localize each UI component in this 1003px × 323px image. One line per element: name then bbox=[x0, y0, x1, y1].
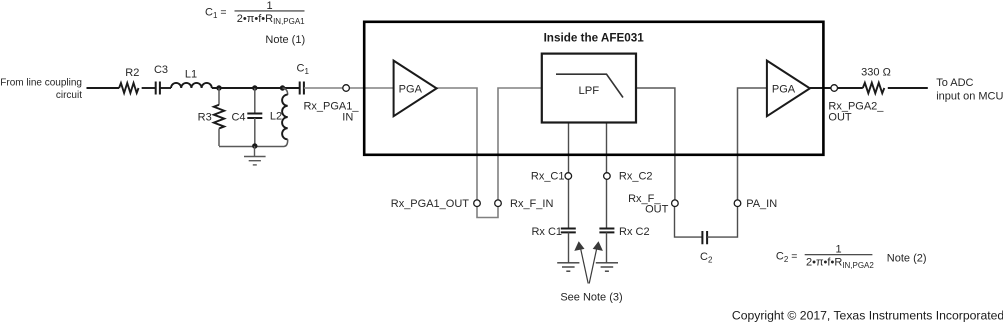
svg-text:330 Ω: 330 Ω bbox=[861, 67, 891, 79]
node dot: R3 junction bbox=[216, 85, 221, 90]
wire: LPF bottom pin 2 down bbox=[606, 123, 608, 173]
terminal: Rx_PGA2_OUT bbox=[828, 85, 884, 124]
wire: jumper Rx_PGA1_OUT to Rx_F_IN bbox=[477, 207, 498, 218]
resistor 330 ohm bbox=[861, 67, 891, 94]
svg-text:Rx_PGA1_OUT: Rx_PGA1_OUT bbox=[391, 198, 470, 210]
wire: R2 to C3 bbox=[142, 87, 156, 89]
node dot: C4 junction bbox=[252, 85, 257, 90]
box: Inside the AFE031 bbox=[364, 22, 823, 155]
op-amp PGA1 bbox=[394, 61, 437, 117]
svg-text:R2: R2 bbox=[125, 67, 139, 79]
terminal: Rx_PGA1_OUT bbox=[391, 198, 481, 210]
svg-text:R3: R3 bbox=[198, 111, 212, 123]
svg-text:2•π•f•RIN,PGA2: 2•π•f•RIN,PGA2 bbox=[806, 257, 874, 270]
wire: PGA1 output down to Rx_PGA1_OUT bbox=[437, 88, 477, 200]
arrow: note 3 right bbox=[589, 241, 603, 283]
wire: Rx C1 cap to ground bbox=[568, 232, 570, 262]
svg-text:circuit: circuit bbox=[56, 90, 82, 101]
svg-text:PGA: PGA bbox=[772, 83, 796, 95]
resistor R2 bbox=[119, 83, 138, 93]
wire: tank bottom rail bbox=[219, 146, 284, 148]
svg-text:Inside the AFE031: Inside the AFE031 bbox=[544, 32, 645, 45]
svg-text:C4: C4 bbox=[231, 111, 245, 123]
wire: PA_IN terminal up to PGA2 input bbox=[738, 88, 767, 200]
wire: Rx C2 cap to ground bbox=[606, 232, 608, 262]
terminal: Rx_C2 bbox=[604, 171, 653, 183]
wire: Rx_F_OUT down to C2 bbox=[675, 207, 703, 237]
formula: C1 = 1/(2*pi*f*R_IN,PGA1) bbox=[205, 0, 305, 46]
svg-text:See Note (3): See Note (3) bbox=[560, 291, 622, 303]
resistor R3 bbox=[198, 88, 225, 146]
op-amp PGA2 bbox=[767, 61, 810, 117]
svg-text:1: 1 bbox=[266, 0, 272, 12]
capacitor Rx C1 bbox=[531, 226, 575, 238]
svg-text:1: 1 bbox=[835, 243, 841, 255]
svg-text:L2: L2 bbox=[270, 111, 282, 123]
wire: input to R2 bbox=[87, 87, 120, 89]
svg-text:Rx_F_IN: Rx_F_IN bbox=[510, 198, 553, 210]
svg-text:Rx_C1: Rx_C1 bbox=[531, 171, 565, 183]
wire: LPF output right and down to Rx_F_OUT bbox=[636, 88, 675, 200]
svg-text:C2 =: C2 = bbox=[776, 250, 797, 264]
wire: Rx_C1 terminal to cap bbox=[568, 179, 570, 228]
wire: terminal to PGA1 input bbox=[349, 87, 393, 89]
svg-text:PGA: PGA bbox=[399, 83, 423, 95]
svg-text:LPF: LPF bbox=[578, 85, 599, 97]
svg-text:OUT: OUT bbox=[828, 111, 852, 123]
svg-text:L1: L1 bbox=[185, 69, 197, 81]
svg-text:PA_IN: PA_IN bbox=[746, 198, 777, 210]
node: From line coupling circuit label bbox=[0, 78, 82, 102]
wire: C2 to PA_IN up bbox=[707, 207, 737, 237]
capacitor C3 bbox=[154, 64, 168, 95]
wire: terminal to 330 ohm resistor bbox=[837, 87, 862, 89]
svg-text:Rx C2: Rx C2 bbox=[619, 226, 650, 238]
capacitor Rx C2 bbox=[599, 226, 649, 238]
svg-text:2•π•f•RIN,PGA1: 2•π•f•RIN,PGA1 bbox=[237, 13, 305, 26]
svg-text:C1 =: C1 = bbox=[205, 7, 226, 21]
node dot: tank bottom junction bbox=[252, 143, 257, 148]
svg-text:IN: IN bbox=[342, 111, 353, 123]
wire: 330 ohm to MCU bbox=[888, 87, 928, 89]
terminal: Rx_F_OUT bbox=[628, 193, 678, 216]
node dot: L2 junction bbox=[280, 85, 285, 90]
svg-text:Copyright © 2017, Texas Instru: Copyright © 2017, Texas Instruments Inco… bbox=[732, 309, 1003, 323]
terminal: Rx_C1 bbox=[531, 171, 572, 183]
ground: below Rx C1 bbox=[557, 263, 579, 271]
wire: Rx_C2 terminal to cap bbox=[606, 179, 608, 228]
capacitor C4 bbox=[231, 88, 262, 146]
wire: C1 to Rx_PGA1_IN terminal bbox=[304, 87, 343, 89]
terminal: PA_IN bbox=[734, 198, 777, 210]
formula: C2 = 1/(2*pi*f*R_IN,PGA2) bbox=[776, 243, 927, 270]
terminal: Rx_PGA1_IN bbox=[303, 85, 359, 124]
svg-text:C1: C1 bbox=[297, 63, 310, 77]
svg-text:C3: C3 bbox=[154, 64, 168, 76]
terminal: Rx_F_IN bbox=[495, 198, 554, 210]
svg-text:Rx C1: Rx C1 bbox=[531, 226, 562, 238]
svg-text:OUT: OUT bbox=[645, 204, 669, 216]
wire: C3 to L1 bbox=[160, 87, 171, 89]
block: LPF bbox=[542, 54, 636, 123]
inductor L1 bbox=[171, 69, 212, 89]
svg-text:From line coupling: From line coupling bbox=[0, 78, 82, 89]
wire: Rx_F_IN up and to LPF input bbox=[498, 88, 542, 200]
ground: below Rx C2 bbox=[596, 263, 618, 271]
ground: below C4 bbox=[244, 146, 266, 165]
wire: L1 to C1 bbox=[212, 87, 300, 89]
svg-text:To ADC: To ADC bbox=[936, 77, 973, 89]
svg-text:Note (1): Note (1) bbox=[265, 34, 305, 46]
capacitor C1 bbox=[297, 63, 310, 95]
inductor L2 bbox=[270, 88, 288, 147]
svg-text:C2: C2 bbox=[700, 251, 713, 265]
wire: PGA2 output to Rx_PGA2_OUT terminal bbox=[810, 87, 831, 89]
node: To ADC input on MCU label bbox=[936, 77, 1003, 103]
arrow: note 3 left bbox=[574, 241, 588, 283]
svg-text:Rx_C2: Rx_C2 bbox=[619, 171, 653, 183]
svg-text:Note (2): Note (2) bbox=[887, 252, 927, 264]
capacitor C2 bbox=[700, 231, 713, 265]
svg-text:input on MCU: input on MCU bbox=[936, 91, 1003, 103]
wire: LPF bottom pin 1 down bbox=[568, 123, 570, 173]
